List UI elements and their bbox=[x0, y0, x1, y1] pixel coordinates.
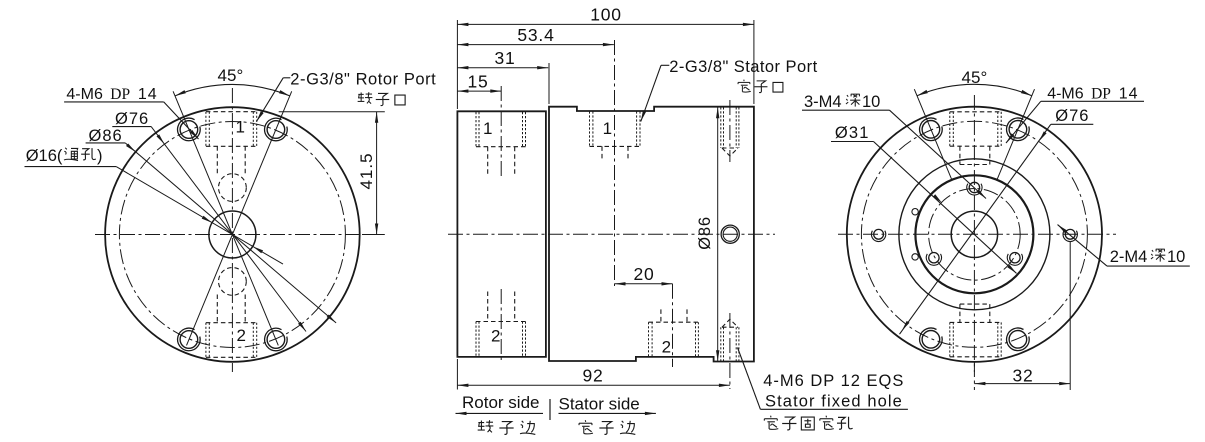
svg-text:2-M4: 2-M4 bbox=[1110, 248, 1148, 266]
middle view: label 定子口 bbox=[738, 80, 751, 92]
middle view: stator port 1 thread (dashed) bbox=[589, 111, 591, 146]
right view: vertical centerline bbox=[973, 95, 975, 372]
middle view: dimension 20 bbox=[615, 283, 673, 285]
svg-text:Ø31: Ø31 bbox=[835, 124, 870, 142]
middle view: stator fixed hole bottom centerline bbox=[729, 313, 731, 389]
right view: dimension 32 bbox=[973, 362, 975, 390]
left view: horizontal centerline bbox=[95, 234, 372, 236]
middle view: rotor port 2 centerline bbox=[500, 289, 502, 360]
svg-text:1: 1 bbox=[236, 118, 245, 137]
middle view: stator body outline bbox=[549, 107, 754, 362]
middle view: label 定子边 bbox=[579, 420, 593, 434]
middle view: label 4-M6 DP 12 EQS / stator fixed hole with leader bbox=[738, 348, 761, 410]
left view: rotor port 2 drill bottom circle (dashed) bbox=[219, 268, 247, 296]
svg-text:15: 15 bbox=[467, 71, 488, 91]
right view: M6 hole top-left bbox=[922, 121, 940, 139]
left view: 41.5 dimension bbox=[279, 111, 385, 113]
left view: rotor port 2 thread outline (dashed) bbox=[205, 323, 207, 358]
right view: bolt circle Ø76 (dash-dot) bbox=[861, 121, 1087, 347]
left view: dimension line Ø16 through hole with inward arrows bbox=[116, 167, 283, 265]
right view: Ø31 circle (dash-dot) bbox=[929, 189, 1021, 281]
right view: 3-M4 holes on Ø31 bbox=[969, 182, 979, 192]
right view: pilot circle (thick) bbox=[915, 175, 1033, 293]
svg-text:DP: DP bbox=[1091, 86, 1111, 103]
left view: M6 tapped hole top-left bbox=[180, 121, 198, 139]
svg-text:2: 2 bbox=[491, 327, 500, 346]
svg-text:10: 10 bbox=[862, 93, 880, 111]
right view: M6 hole bottom-left bbox=[922, 331, 940, 349]
middle view: dimension Ø86 vertical bbox=[717, 107, 719, 361]
left view: radial line through top-left / bottom-right bolts bbox=[173, 91, 278, 345]
svg-text:2-G3/8" Stator Port: 2-G3/8" Stator Port bbox=[669, 58, 817, 76]
middle view: stator fixed hole top (dashed thread) bbox=[720, 107, 722, 148]
right view: label 2-M4 deep 10 with leader bbox=[1107, 265, 1190, 267]
svg-text:Ø86: Ø86 bbox=[696, 216, 714, 250]
left view: rotor port 1 thread outline (dashed) bbox=[205, 112, 207, 147]
svg-text:Rotor side: Rotor side bbox=[462, 393, 539, 412]
left view: rotor port 1 pilot hole (dashed) bbox=[216, 146, 218, 174]
left view: M6 tapped hole top-right bbox=[267, 121, 285, 139]
left view: M6 tapped hole bottom-left bbox=[180, 331, 198, 349]
svg-text:31: 31 bbox=[494, 48, 515, 68]
middle view: stator port 2 pilot (dashed) bbox=[660, 309, 662, 322]
left view: 45 deg dimension arc with arrows bbox=[175, 84, 290, 95]
svg-text:2: 2 bbox=[237, 326, 246, 345]
svg-text:): ) bbox=[97, 147, 103, 165]
svg-text:10: 10 bbox=[1167, 248, 1185, 266]
svg-text:14: 14 bbox=[1119, 86, 1139, 103]
svg-text:20: 20 bbox=[633, 264, 654, 284]
svg-text:Ø16(: Ø16( bbox=[26, 147, 63, 165]
left view: rotor port 1 drill bottom circle (dashed) bbox=[219, 174, 247, 202]
middle view: dimension 100 bbox=[456, 20, 458, 109]
middle view: rotor port 1 thread (dashed) bbox=[475, 112, 477, 147]
middle view: seal port circle on centerline bbox=[721, 225, 739, 243]
svg-text:2: 2 bbox=[662, 338, 671, 357]
svg-text:92: 92 bbox=[582, 365, 603, 385]
svg-text:2-G3/8" Rotor Port: 2-G3/8" Rotor Port bbox=[290, 71, 436, 89]
middle view: stator port 1 centerline bbox=[614, 40, 616, 286]
svg-text:4-M6: 4-M6 bbox=[66, 86, 103, 103]
right view: M6 hole top-right bbox=[1009, 121, 1027, 139]
right view: 45 deg dimension arc bbox=[917, 84, 1032, 95]
middle view: rotor port 2 pilot (dashed) bbox=[487, 292, 489, 322]
middle view: rotor body outline bbox=[457, 111, 546, 357]
right view: horizontal centerline bbox=[838, 233, 1116, 235]
right view: radial extension through top-right bolt for 45 deg dim bbox=[997, 89, 1035, 181]
left view: label 转子口 bbox=[358, 92, 373, 104]
right view: M6 hole bottom-right bbox=[1009, 331, 1027, 349]
svg-text:4-M6: 4-M6 bbox=[1047, 86, 1084, 103]
middle view: dimension 31 bbox=[548, 63, 550, 104]
middle view: dimension 92 bbox=[456, 359, 458, 390]
svg-text:DP: DP bbox=[110, 86, 130, 103]
middle view: stator port 2 centerline bbox=[672, 284, 674, 367]
svg-text:Ø86: Ø86 bbox=[89, 127, 123, 145]
left view: rotor end view outer circle (body silhouette) bbox=[105, 107, 360, 362]
right view: center hole bbox=[951, 211, 997, 257]
middle view: rotor port 2 thread (dashed) bbox=[475, 322, 477, 357]
svg-text:Stator fixed hole: Stator fixed hole bbox=[765, 392, 903, 410]
svg-text:Stator side: Stator side bbox=[559, 395, 640, 414]
svg-text:32: 32 bbox=[1012, 366, 1033, 386]
left view: radial line through top-right / bottom-left bolts bbox=[187, 91, 292, 345]
middle view: stator port 2 thread (dashed) bbox=[648, 322, 650, 356]
svg-text:53.4: 53.4 bbox=[517, 25, 554, 45]
left view: M6 tapped hole bottom-right bbox=[267, 331, 285, 349]
right view: radial extension through top-left bolt for 45 deg dim bbox=[914, 89, 952, 181]
svg-text:Ø76: Ø76 bbox=[1055, 107, 1089, 125]
middle view: dimension 53.4 bbox=[457, 44, 614, 46]
svg-text:1: 1 bbox=[483, 119, 492, 138]
middle view: stator port 1 pilot (dashed) bbox=[601, 146, 603, 159]
left view: rotor port 2 pilot hole (dashed) bbox=[216, 295, 218, 323]
left view: dimension line Ø86 through center bbox=[125, 143, 336, 323]
right view: outer circle (stator flange) bbox=[847, 107, 1102, 362]
svg-text:Ø76: Ø76 bbox=[115, 110, 149, 128]
svg-text:45°: 45° bbox=[962, 68, 988, 87]
svg-text:100: 100 bbox=[590, 5, 622, 25]
left view: dimension line Ø76 through center bbox=[151, 127, 306, 332]
right view: small pin holes bbox=[912, 209, 918, 215]
svg-text:14: 14 bbox=[138, 86, 158, 103]
svg-text:1: 1 bbox=[603, 119, 612, 138]
middle view: label 转子边 bbox=[478, 420, 494, 432]
middle view: stator fixed hole top centerline bbox=[729, 100, 731, 162]
left view: bolt circle Ø76 (dash-dot) bbox=[119, 122, 345, 348]
svg-text:3-M4: 3-M4 bbox=[804, 93, 842, 111]
left view: vertical centerline bbox=[231, 88, 233, 372]
svg-text:4-M6 DP 12 EQS: 4-M6 DP 12 EQS bbox=[763, 372, 904, 390]
middle view: dimension 15 bbox=[457, 90, 501, 92]
middle view: stator fixed hole bottom (dashed thread) bbox=[720, 327, 722, 361]
right view: stator boss circle bbox=[899, 159, 1050, 310]
right view: stator port 1 projection (dashed) bbox=[949, 112, 951, 146]
right view: 2-M4 holes on horizontal axis bbox=[874, 229, 884, 239]
svg-text:45°: 45° bbox=[218, 66, 244, 85]
middle view: label 定子固定孔 bbox=[764, 416, 778, 430]
middle view: rotor port 1 centerline bbox=[500, 86, 502, 179]
middle view: rotor port 1 pilot (dashed) bbox=[487, 147, 489, 176]
svg-text:41.5: 41.5 bbox=[357, 152, 376, 189]
right view: stator port 2 projection (dashed) bbox=[949, 322, 951, 356]
left view: center through hole Ø16 bbox=[209, 211, 256, 258]
middle view: horizontal centerline bbox=[448, 233, 775, 235]
